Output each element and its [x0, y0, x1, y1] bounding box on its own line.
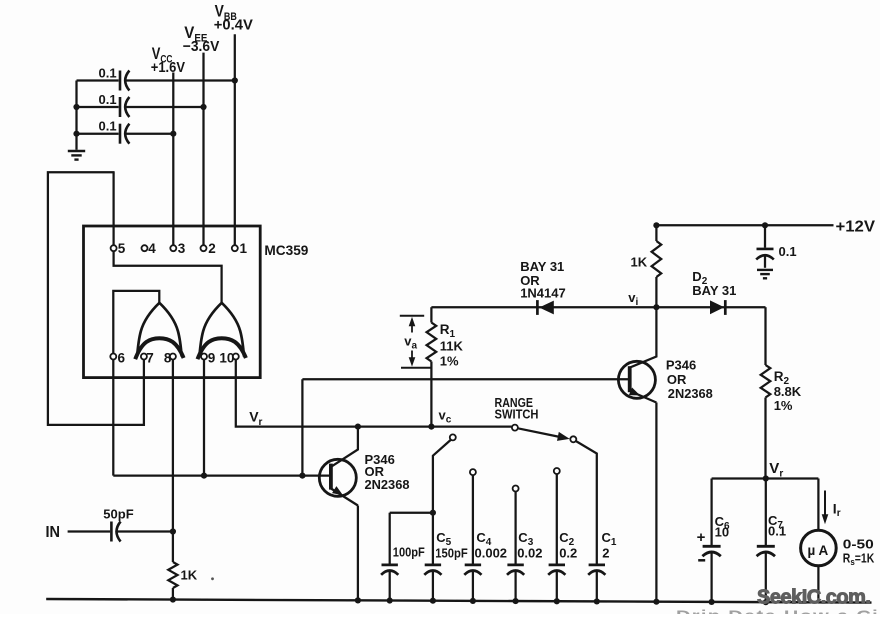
- svg-text:P346: P346: [666, 358, 696, 373]
- svg-text:10: 10: [715, 524, 729, 539]
- svg-text:OR: OR: [667, 372, 687, 387]
- svg-text:0.1: 0.1: [768, 524, 786, 539]
- svg-text:4: 4: [148, 241, 156, 256]
- svg-text:BAY 31: BAY 31: [520, 259, 564, 274]
- svg-text:3: 3: [178, 241, 186, 256]
- svg-text:1%: 1%: [774, 398, 793, 413]
- svg-text:0.1: 0.1: [99, 66, 117, 81]
- svg-text:8.8K: 8.8K: [774, 384, 802, 399]
- svg-text:+: +: [697, 529, 706, 546]
- svg-text:1%: 1%: [440, 354, 459, 369]
- svg-text:2N2368: 2N2368: [365, 477, 410, 492]
- svg-text:50pF: 50pF: [103, 507, 133, 522]
- svg-text:+0.4V: +0.4V: [214, 17, 253, 34]
- svg-text:100pF: 100pF: [393, 545, 425, 560]
- svg-text:6: 6: [118, 351, 126, 366]
- svg-text:0.2: 0.2: [559, 546, 577, 561]
- svg-text:1K: 1K: [631, 255, 648, 270]
- svg-text:0.002: 0.002: [475, 546, 508, 561]
- svg-text:10: 10: [219, 351, 234, 366]
- svg-text:0.02: 0.02: [517, 546, 542, 561]
- svg-text:1N4147: 1N4147: [520, 286, 566, 301]
- svg-text:MC359: MC359: [264, 242, 308, 258]
- svg-text:2: 2: [208, 241, 216, 256]
- svg-text:1: 1: [240, 241, 248, 256]
- svg-text:BAY 31: BAY 31: [692, 283, 736, 298]
- svg-text:1K: 1K: [181, 568, 198, 583]
- svg-text:+12V: +12V: [836, 219, 876, 236]
- svg-text:IN: IN: [46, 524, 61, 541]
- svg-text:8: 8: [164, 351, 172, 366]
- svg-text:5: 5: [118, 241, 126, 256]
- svg-text:0.1: 0.1: [779, 244, 797, 259]
- svg-text:9: 9: [208, 351, 216, 366]
- svg-text:2: 2: [602, 546, 609, 561]
- svg-text:150pF: 150pF: [435, 546, 468, 561]
- svg-text:µ A: µ A: [808, 543, 829, 558]
- svg-text:0-50: 0-50: [843, 537, 874, 551]
- svg-text:0.1: 0.1: [99, 118, 117, 133]
- svg-text:0.1: 0.1: [99, 92, 117, 107]
- svg-text:7: 7: [146, 351, 154, 366]
- svg-text:SWITCH: SWITCH: [495, 407, 539, 422]
- svg-text:Drip Dete How a Ci: Drip Dete How a Ci: [676, 608, 879, 615]
- svg-text:2N2368: 2N2368: [668, 386, 713, 401]
- svg-text:−3.6V: −3.6V: [183, 38, 220, 55]
- svg-text:+1.6V: +1.6V: [151, 59, 185, 76]
- svg-text:11K: 11K: [440, 339, 464, 354]
- svg-text:SeekIC.com.: SeekIC.com.: [757, 587, 870, 609]
